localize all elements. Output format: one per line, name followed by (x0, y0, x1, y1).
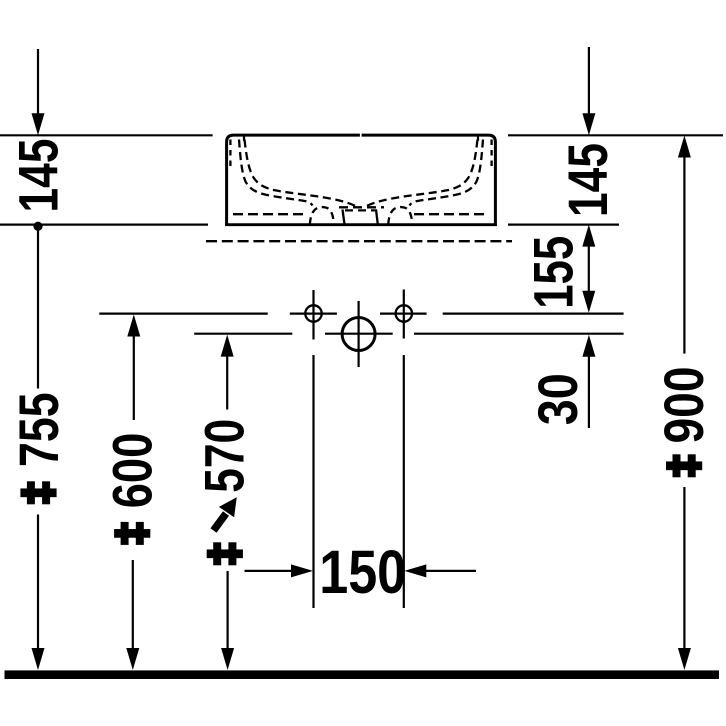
inner wall dashed right (490, 140, 492, 169)
wire top reference line right (508, 134, 723, 136)
svg-text:900: 900 (652, 367, 715, 444)
dimension 150 (245, 538, 477, 606)
drain arch right (388, 207, 412, 224)
dimension 155 (522, 225, 596, 313)
svg-text:155: 155 (522, 236, 585, 309)
svg-text:570: 570 (192, 419, 255, 493)
basin bowl curve inner left (245, 140, 358, 208)
svg-text:600: 600 (101, 433, 164, 509)
faucet hole right (396, 290, 412, 339)
wire dashed counter line below basin (206, 240, 512, 242)
drain recess side right (376, 210, 378, 225)
basin bowl curve outer right (410, 140, 484, 206)
floor line (5, 670, 720, 679)
wire faucet-hole axis line C segment 4 (443, 313, 624, 315)
dimension 755 (7, 228, 70, 670)
wire mixer axis line D segment 3 (414, 333, 624, 335)
basin bowl curve outer left (239, 140, 313, 206)
mixer hole center (342, 301, 375, 367)
adjustable arrow glyph (214, 497, 237, 530)
svg-text:145: 145 (7, 139, 70, 213)
dimension 600 (101, 315, 164, 671)
wire faucet-hole axis line C segment 2 (290, 313, 337, 315)
washbasin outline (225, 135, 497, 226)
svg-text:30: 30 (526, 373, 589, 425)
drain recess top dashed (339, 206, 384, 208)
dimension 145 right (556, 47, 619, 217)
faucet hole left (305, 290, 321, 340)
basin floor dashed left (233, 213, 307, 215)
drain recess second dashed (345, 209, 377, 211)
wire top reference line left (0, 134, 213, 136)
dimension 900 (652, 136, 715, 671)
basin floor dashed right (414, 213, 489, 215)
drain recess side left (343, 210, 345, 225)
wire faucet-hole axis line C segment 3 (380, 313, 427, 315)
dimension 30 (526, 335, 595, 428)
svg-text:150: 150 (319, 538, 406, 606)
inner wall dashed left (229, 140, 231, 169)
wire rim-bottom reference line right (508, 224, 619, 226)
wire mixer axis line D segment 2 (325, 333, 393, 335)
svg-text:145: 145 (556, 143, 619, 217)
dimension 145 left (7, 49, 70, 231)
dimension 570 (192, 335, 255, 670)
washbasin inner rim dashed detail (230, 136, 491, 224)
extension line left hole (312, 355, 314, 608)
wire rim-bottom reference line left (0, 224, 208, 226)
wire faucet-hole axis line C segment 1 (99, 313, 267, 315)
inner rim tick right (477, 136, 479, 141)
drain arch left (310, 207, 334, 224)
wire mixer axis line D segment 1 (194, 333, 292, 335)
extension line right hole (403, 355, 405, 608)
svg-text:755: 755 (7, 392, 70, 467)
basin bowl curve inner right (365, 140, 478, 208)
inner rim tick left (243, 136, 245, 141)
